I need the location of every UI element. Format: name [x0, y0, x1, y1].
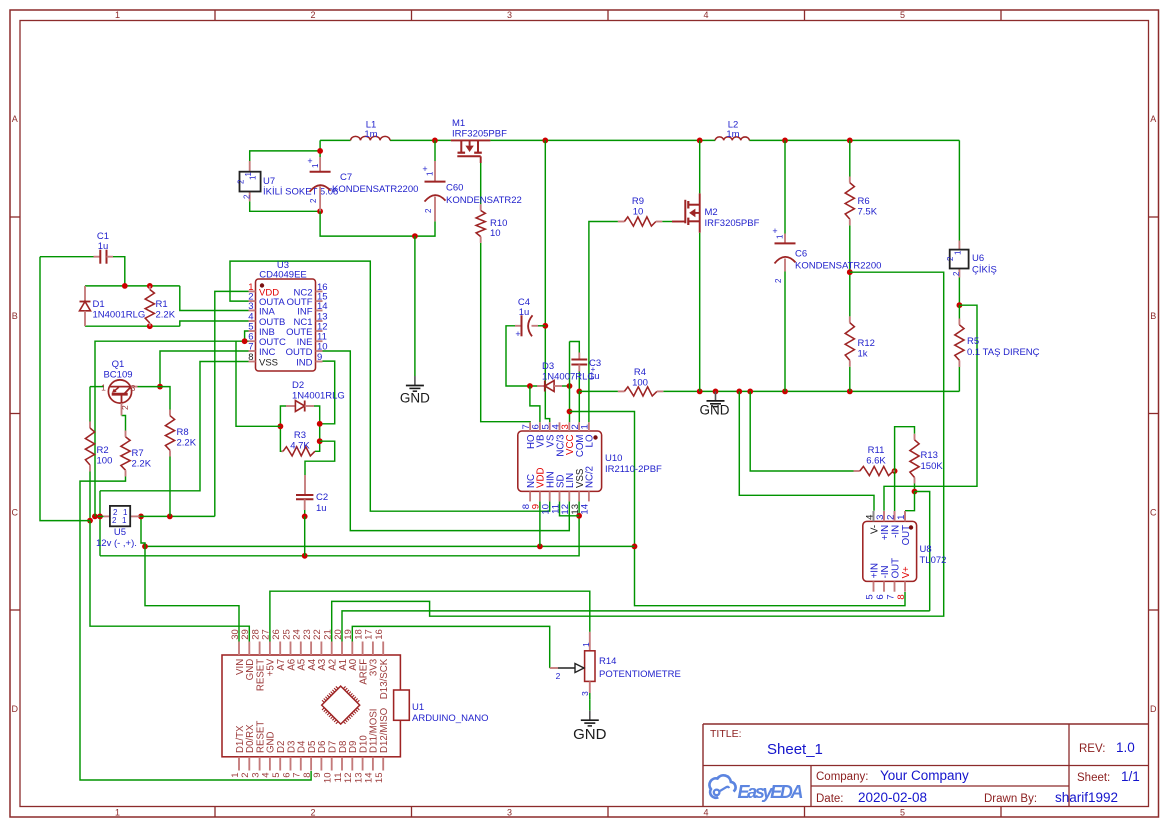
- node GND-Vminus: [736, 389, 742, 395]
- wire R10 to HO: [481, 243, 530, 422]
- svg-text:CD4049EE: CD4049EE: [259, 270, 307, 281]
- svg-text:2: 2: [120, 405, 130, 410]
- potentiometer R14: [589, 632, 591, 651]
- svg-text:3: 3: [875, 515, 886, 520]
- node GND-sym: [713, 389, 719, 395]
- svg-text:1N4001RLG: 1N4001RLG: [93, 310, 146, 321]
- wire U6 bottom: [958, 278, 960, 306]
- svg-text:EasyEDA: EasyEDA: [738, 782, 804, 802]
- svg-text:OUTD: OUTD: [286, 347, 313, 358]
- wire VS net: [545, 140, 549, 422]
- node GND-R11: [747, 389, 753, 395]
- node D1-C1: [122, 283, 128, 289]
- svg-text:R3: R3: [294, 430, 306, 441]
- svg-text:U10: U10: [605, 453, 622, 464]
- svg-text:9: 9: [317, 352, 322, 363]
- wire C1 right to D1 loop: [113, 257, 125, 286]
- ground symbol 3: [589, 711, 591, 721]
- svg-text:R1: R1: [156, 299, 168, 310]
- resistor R9: [618, 221, 625, 223]
- svg-text:150K: 150K: [921, 461, 944, 472]
- wire U7 top feed: [250, 151, 320, 161]
- svg-text:Drawn By:: Drawn By:: [984, 793, 1037, 805]
- wire loop bottom rail: [320, 211, 435, 236]
- resistor R13: [914, 434, 916, 440]
- wire R12 bottom: [849, 367, 851, 392]
- node 12V-left: [142, 544, 148, 550]
- svg-text:R8: R8: [177, 427, 189, 438]
- wire U7 bottom loop: [250, 201, 320, 211]
- svg-text:1: 1: [115, 808, 120, 818]
- wire U5 rail left: [95, 515, 104, 517]
- resistor R3: [282, 450, 284, 452]
- svg-text:2: 2: [885, 515, 896, 520]
- capacitor C3: [578, 353, 580, 360]
- svg-text:10: 10: [490, 228, 501, 239]
- capacitor C60: [434, 161, 436, 182]
- svg-text:15: 15: [374, 773, 385, 784]
- node C2-bot: [302, 514, 308, 520]
- svg-text:4: 4: [703, 10, 708, 20]
- svg-text:+: +: [772, 226, 777, 236]
- svg-text:D1: D1: [93, 299, 105, 310]
- wire 12V riser: [141, 516, 145, 546]
- svg-text:2020-02-08: 2020-02-08: [858, 790, 927, 805]
- svg-text:ARDUINO_NANO: ARDUINO_NANO: [412, 713, 489, 724]
- resistor R2: [89, 422, 91, 429]
- svg-text:12v (- ,+).: 12v (- ,+).: [96, 538, 137, 549]
- wire INB jog: [245, 331, 249, 341]
- diode D1: [84, 286, 86, 302]
- svg-text:INA: INA: [259, 307, 276, 318]
- title block: [703, 723, 1149, 725]
- svg-text:7: 7: [248, 342, 253, 353]
- wire U8 OUT jog: [905, 492, 915, 511]
- svg-text:KONDENSATR22: KONDENSATR22: [446, 195, 522, 206]
- IC U10 IR2110: [518, 431, 602, 491]
- wire C6 top: [784, 140, 786, 233]
- svg-text:C2: C2: [316, 492, 328, 503]
- svg-text:V-: V-: [869, 525, 880, 534]
- wire VCC vertical: [569, 342, 571, 423]
- svg-text:1m: 1m: [364, 129, 377, 140]
- resistor R6: [849, 177, 851, 183]
- svg-text:D3: D3: [542, 361, 554, 372]
- node R3-right: [317, 438, 323, 444]
- wire M2 source: [699, 233, 701, 392]
- svg-text:Sheet_1: Sheet_1: [767, 741, 823, 758]
- svg-text:U6: U6: [972, 253, 984, 264]
- node R6-R12: [847, 269, 853, 275]
- wire D1 loop bottom: [85, 325, 180, 327]
- svg-text:D12/MISO: D12/MISO: [379, 707, 390, 753]
- wire IND to D2 loop: [320, 361, 335, 424]
- node Q1-coll: [157, 384, 163, 390]
- wire Q1 emitter jog: [122, 416, 126, 431]
- resistor R8: [169, 410, 171, 416]
- node SD-VSS: [576, 513, 582, 519]
- resistor R12: [849, 316, 851, 322]
- svg-text:M1: M1: [452, 118, 465, 129]
- wire C4 right pin: [538, 325, 545, 327]
- connector U5: [104, 515, 110, 517]
- svg-text:C: C: [12, 508, 19, 518]
- node rail-VS: [542, 138, 548, 144]
- wire R6 top: [849, 140, 851, 176]
- svg-text:4: 4: [703, 808, 708, 818]
- svg-text:C: C: [1150, 508, 1157, 518]
- svg-text:4.7K: 4.7K: [290, 441, 310, 452]
- wire C1 left pin wire: [40, 256, 94, 258]
- svg-text:R2: R2: [97, 445, 109, 456]
- IC U1 Arduino Nano: [222, 655, 400, 757]
- wire OUT to A1 rail: [915, 492, 930, 611]
- ground symbol 2: [715, 391, 717, 401]
- svg-text:R13: R13: [921, 450, 938, 461]
- svg-text:1: 1: [115, 10, 120, 20]
- svg-text:3: 3: [131, 383, 136, 393]
- wire C1 left net: [40, 257, 90, 521]
- svg-text:1u: 1u: [519, 307, 530, 318]
- svg-text:1m: 1m: [726, 129, 739, 140]
- svg-text:-IN: -IN: [880, 565, 891, 578]
- op-amp U3 CD4049EE: [256, 279, 316, 371]
- node VCC-branch: [567, 409, 573, 415]
- svg-text:A: A: [12, 114, 18, 124]
- svg-text:R5: R5: [967, 336, 979, 347]
- node VB-D3: [527, 383, 533, 389]
- svg-text:2.2K: 2.2K: [156, 310, 176, 321]
- svg-text:2: 2: [310, 808, 315, 818]
- svg-text:TITLE:: TITLE:: [710, 728, 742, 740]
- svg-text:R14: R14: [599, 656, 616, 667]
- svg-text:M2: M2: [705, 207, 718, 218]
- svg-text:GND: GND: [573, 726, 607, 743]
- svg-text:REV:: REV:: [1079, 743, 1105, 755]
- svg-text:U1: U1: [412, 702, 424, 713]
- node rail-C6: [782, 138, 788, 144]
- svg-text:1: 1: [426, 171, 435, 176]
- svg-text:VSS: VSS: [259, 358, 278, 369]
- capacitor C2: [304, 475, 306, 495]
- wire Q1 base: [90, 386, 104, 388]
- wire B+ top rail: [320, 139, 351, 141]
- wire U10 VDD drop: [539, 501, 541, 546]
- wire C60 top drop: [434, 140, 436, 161]
- svg-text:1: 1: [954, 250, 963, 255]
- svg-text:100: 100: [632, 378, 648, 389]
- node GND-C6: [782, 389, 788, 395]
- svg-text:3: 3: [248, 301, 253, 312]
- svg-text:GND: GND: [700, 403, 730, 418]
- resistor R4: [618, 390, 625, 392]
- inductor L2: [715, 137, 749, 140]
- svg-text:1: 1: [122, 516, 127, 525]
- svg-text:+: +: [515, 329, 520, 339]
- capacitor C4: [515, 325, 522, 327]
- node VCC-D3: [567, 383, 573, 389]
- wire R8 bottom: [169, 457, 171, 517]
- svg-text:A: A: [1150, 114, 1156, 124]
- wire R5 top: [958, 305, 960, 318]
- wire R3 to C2 jog: [305, 441, 335, 475]
- op-amp U8 TL072: [863, 521, 917, 581]
- diode D3: [537, 385, 545, 387]
- wire R2 bottom: [89, 472, 91, 521]
- wire A0 to R14 wiper: [352, 626, 549, 668]
- wire A1 rail: [342, 611, 930, 642]
- transistor M1: [451, 139, 491, 141]
- node 12V-rail-U5: [138, 514, 144, 520]
- svg-text:1: 1: [580, 424, 591, 429]
- wire V- net: [739, 391, 874, 510]
- svg-text:R6: R6: [858, 196, 870, 207]
- svg-text:D2: D2: [292, 380, 304, 391]
- transistor M2: [699, 193, 701, 232]
- svg-text:U7: U7: [263, 176, 275, 187]
- wire 12V rail: [145, 545, 635, 547]
- wire OUTA to HIN: [230, 261, 550, 511]
- node rail-R6: [847, 138, 853, 144]
- svg-text:4: 4: [864, 515, 875, 520]
- svg-text:Company:: Company:: [816, 771, 868, 783]
- svg-text:-IN: -IN: [890, 525, 901, 538]
- svg-text:3: 3: [507, 10, 512, 20]
- svg-text:KONDENSATR2200: KONDENSATR2200: [332, 184, 418, 195]
- svg-text:10: 10: [633, 207, 644, 218]
- wire VB drop to pin6: [530, 386, 540, 422]
- wire C2 to VSS rail: [304, 516, 306, 555]
- svg-text:D: D: [1150, 704, 1157, 714]
- wire C4 left feed: [506, 326, 538, 386]
- svg-text:5: 5: [864, 594, 875, 599]
- connector U6: [958, 241, 960, 253]
- wire C7 top drop: [319, 140, 321, 157]
- node D1-R1-bot: [147, 323, 153, 329]
- node R5-top: [957, 302, 963, 308]
- wire U3 VSS drop: [100, 362, 249, 491]
- wire U10 SD jog: [560, 501, 580, 515]
- wire base-R2 vert: [89, 387, 91, 422]
- inductor L1: [351, 136, 390, 140]
- wire Q1 collector to R8: [138, 387, 171, 410]
- wire COM riser: [578, 391, 580, 422]
- wire R11 left to GND rail: [750, 391, 853, 471]
- node VDD-U10-12V: [537, 544, 543, 550]
- svg-text:1k: 1k: [858, 349, 868, 360]
- svg-text:2: 2: [774, 278, 783, 283]
- wire LO net: [589, 222, 618, 423]
- wire 12V to VIN: [145, 546, 239, 641]
- svg-text:C60: C60: [446, 183, 463, 194]
- node R13-OUT: [912, 489, 918, 495]
- svg-text:7: 7: [885, 594, 896, 599]
- wire OUTC net: [95, 341, 249, 516]
- svg-text:5: 5: [900, 10, 905, 20]
- svg-text:KONDENSATR2200: KONDENSATR2200: [795, 261, 881, 272]
- wire C6 bottom: [784, 272, 786, 392]
- wire U5 minus riser: [99, 491, 101, 556]
- svg-text:7.5K: 7.5K: [858, 207, 878, 218]
- node VS-C4: [542, 323, 548, 329]
- wire OUTC to D2 branch: [236, 341, 280, 426]
- wire C2 bottom: [304, 510, 306, 516]
- svg-text:TL072: TL072: [920, 555, 947, 566]
- svg-text:0.1 TAŞ DIRENÇ: 0.1 TAŞ DIRENÇ: [967, 347, 1040, 358]
- node U5-minus: [97, 514, 103, 520]
- wire R9 to M2 gate: [662, 221, 672, 223]
- svg-text:+IN: +IN: [880, 525, 891, 540]
- wire VSS rail: [100, 516, 579, 556]
- svg-text:2: 2: [946, 256, 955, 261]
- wire GND stub 1: [414, 236, 416, 376]
- svg-text:2: 2: [952, 271, 961, 276]
- svg-text:BC109: BC109: [103, 370, 132, 381]
- node C7-bottom: [317, 208, 323, 214]
- node gnd-stub-top: [412, 233, 418, 239]
- wire R5 sense to U8 +IN: [884, 305, 977, 511]
- node GND-M2: [697, 389, 703, 395]
- svg-text:2: 2: [112, 516, 117, 525]
- svg-text:1u: 1u: [98, 241, 109, 252]
- svg-text:100: 100: [97, 456, 113, 467]
- svg-text:1: 1: [581, 642, 591, 647]
- resistor R5: [958, 319, 960, 325]
- capacitor C6: [784, 234, 786, 244]
- svg-text:16: 16: [374, 629, 385, 640]
- svg-text:2: 2: [243, 194, 252, 199]
- node U5-rail-left-end: [92, 514, 98, 520]
- wire loop to OUTB: [180, 321, 249, 326]
- svg-text:IRF3205PBF: IRF3205PBF: [452, 129, 507, 140]
- svg-text:OUT: OUT: [901, 525, 912, 546]
- svg-text:3: 3: [580, 691, 590, 696]
- svg-text:+: +: [591, 365, 596, 374]
- svg-text:2.2K: 2.2K: [177, 438, 197, 449]
- node C7-top: [317, 148, 323, 154]
- svg-text:1/1: 1/1: [1121, 769, 1140, 784]
- svg-text:B: B: [12, 311, 18, 321]
- node VCC-12V: [632, 544, 638, 550]
- svg-text:D13/SCK: D13/SCK: [379, 658, 390, 699]
- capacitor C7: [319, 157, 321, 172]
- wire INC net: [160, 351, 249, 387]
- svg-text:+IN: +IN: [869, 563, 880, 578]
- svg-text:1.0: 1.0: [1116, 740, 1135, 755]
- svg-text:IR2110-2PBF: IR2110-2PBF: [605, 464, 662, 475]
- svg-text:6.6K: 6.6K: [866, 456, 886, 467]
- svg-text:10: 10: [317, 342, 328, 353]
- node U5-rail-R8: [167, 514, 173, 520]
- svg-text:2: 2: [309, 198, 318, 203]
- svg-text:B: B: [1150, 311, 1156, 321]
- svg-text:POTENTIOMETRE: POTENTIOMETRE: [599, 669, 681, 680]
- svg-text:1: 1: [896, 515, 907, 520]
- svg-text:GND: GND: [400, 391, 430, 406]
- wire D1 loop top: [85, 285, 180, 287]
- wire U10 VSS drop: [578, 501, 580, 515]
- wire R13 top jog: [895, 427, 915, 471]
- svg-text:ÇİKİŞ: ÇİKİŞ: [972, 265, 997, 276]
- wire M2 gate lead: [672, 221, 685, 223]
- node C2-VSS: [302, 553, 308, 559]
- capacitor C1: [94, 256, 101, 258]
- node rail-C60: [432, 138, 438, 144]
- svg-text:C7: C7: [340, 172, 352, 183]
- wire M1 gate net: [480, 163, 482, 204]
- wire R7 bottom to D5: [80, 477, 311, 781]
- wire R5 bottom: [958, 367, 960, 391]
- node R2-C1: [87, 518, 93, 524]
- svg-text:1N4007RLG: 1N4007RLG: [542, 372, 595, 383]
- svg-text:1: 1: [311, 163, 320, 168]
- resistor R10: [480, 204, 482, 210]
- node D2-right-top: [317, 421, 323, 427]
- wire D2 loop left: [280, 406, 286, 451]
- wire U8 -IN riser: [894, 471, 896, 511]
- svg-text:C6: C6: [795, 249, 807, 260]
- node rail-M2: [697, 138, 703, 144]
- wire R14 bottom: [589, 700, 591, 711]
- node INB-OUTC: [242, 338, 248, 344]
- node D1-R1-top: [147, 283, 153, 289]
- svg-text:R12: R12: [858, 338, 875, 349]
- wire D2 loop right: [314, 406, 320, 451]
- svg-text:NC/2: NC/2: [585, 466, 596, 488]
- node R11-R13: [892, 468, 898, 474]
- svg-text:2: 2: [556, 671, 561, 681]
- svg-text:1u: 1u: [316, 503, 327, 514]
- svg-text:5: 5: [900, 808, 905, 818]
- svg-text:2.2K: 2.2K: [132, 459, 152, 470]
- svg-text:14: 14: [580, 504, 591, 515]
- transistor Q1: [108, 380, 131, 403]
- svg-text:Your Company: Your Company: [880, 768, 969, 783]
- svg-text:2: 2: [424, 208, 433, 213]
- svg-text:6: 6: [875, 594, 886, 599]
- wire R6-R12 mid: [849, 225, 851, 316]
- diode D2: [286, 405, 295, 407]
- svg-text:INC: INC: [259, 347, 276, 358]
- svg-text:2: 2: [310, 10, 315, 20]
- svg-text:2: 2: [237, 179, 246, 184]
- svg-text:8: 8: [248, 352, 253, 363]
- svg-text:1: 1: [776, 234, 785, 239]
- svg-text:1: 1: [249, 175, 258, 180]
- svg-text:Q1: Q1: [112, 359, 125, 370]
- EasyEDA logo: [709, 775, 735, 797]
- svg-text:1: 1: [101, 383, 106, 393]
- wire GND to pin29: [90, 521, 249, 642]
- resistor R7: [125, 431, 127, 437]
- wire GND rail right: [663, 390, 959, 392]
- svg-text:IND: IND: [296, 358, 313, 369]
- svg-text:R11: R11: [868, 445, 885, 456]
- node C3-GND: [576, 389, 582, 395]
- connector U7: [249, 161, 251, 174]
- ground symbol 1 (under C60 loop): [414, 376, 416, 386]
- resistor R1: [149, 286, 151, 290]
- wire OUTD to LIN: [323, 351, 570, 531]
- node GND-R12: [847, 389, 853, 395]
- node D2-OUTC: [278, 423, 284, 429]
- wire C3 top jog: [570, 342, 580, 353]
- wire U5 rail right: [140, 515, 215, 517]
- wire +5V to R14: [270, 591, 590, 641]
- svg-text:INF: INF: [297, 307, 313, 318]
- wire GND rail left: [579, 390, 618, 392]
- wire R13 bottom: [914, 484, 916, 492]
